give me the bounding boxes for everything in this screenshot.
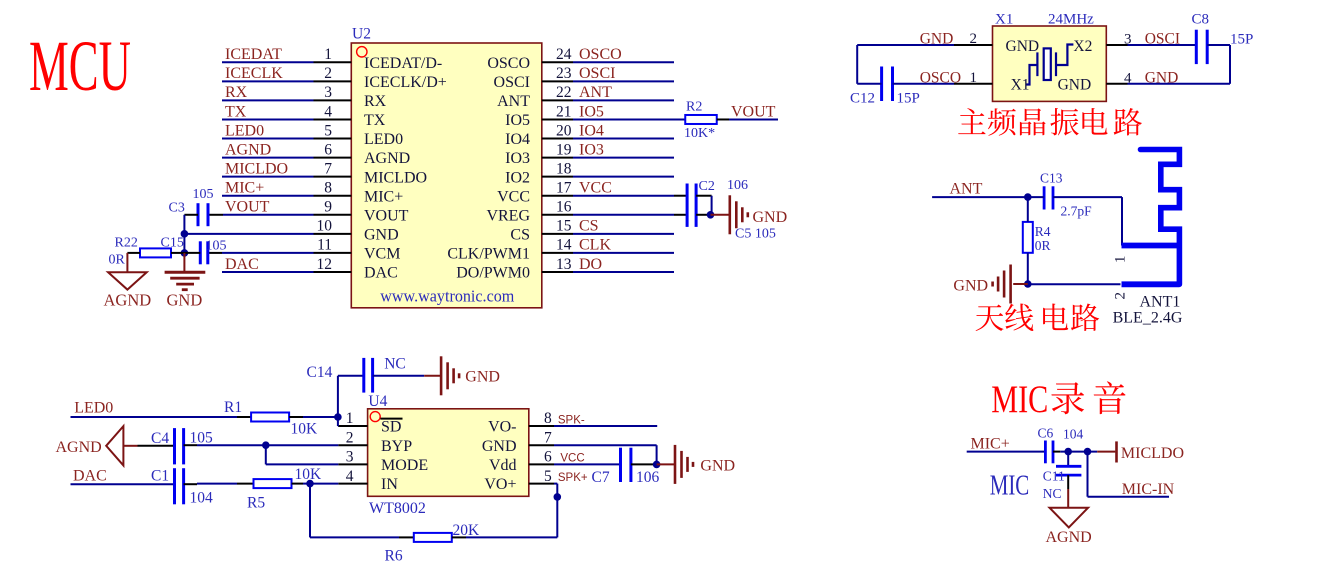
wire net CLK <box>573 252 674 254</box>
junction <box>707 211 715 219</box>
svg-text:VCC: VCC <box>560 453 584 465</box>
svg-text:R1: R1 <box>224 399 242 416</box>
svg-text:24MHz: 24MHz <box>1048 12 1094 28</box>
wire U4 pin6 VCC to C7 <box>554 463 621 465</box>
power symbol GND <box>728 195 731 234</box>
svg-text:R6: R6 <box>385 548 403 565</box>
U4 pin 7 stub <box>529 444 554 446</box>
wire junction to GND symbol <box>657 463 675 465</box>
svg-text:18: 18 <box>556 160 572 177</box>
U2 pin 10 stub <box>314 233 352 235</box>
svg-text:CLK: CLK <box>579 237 611 254</box>
U2 pin 4 stub <box>314 118 352 120</box>
svg-text:6: 6 <box>324 141 332 158</box>
svg-text:12: 12 <box>317 256 333 273</box>
svg-text:NC: NC <box>1043 486 1062 501</box>
wire net LED0 <box>222 138 314 140</box>
svg-text:AGND: AGND <box>104 291 152 310</box>
wire net DO <box>573 271 674 273</box>
IC U2 pin-1 indicator circle <box>357 47 367 57</box>
wire net 18 <box>573 176 674 178</box>
U2 pin 21 stub <box>542 118 573 120</box>
capacitor C14 <box>362 358 365 393</box>
MICLDO pin tick <box>1115 441 1118 462</box>
wire to MICLDO pin <box>1097 451 1115 453</box>
resistor R5 <box>254 479 292 488</box>
svg-text:AGND: AGND <box>1046 529 1092 546</box>
X1 pin 1 stub <box>954 83 993 85</box>
wire C2 down to junction <box>696 195 712 197</box>
svg-text:LED0: LED0 <box>225 122 264 139</box>
U2 pin 13 stub <box>542 271 573 273</box>
svg-text:C5 105: C5 105 <box>735 227 776 242</box>
svg-text:ANT1: ANT1 <box>1140 294 1181 311</box>
U2 pin 6 stub <box>314 157 352 159</box>
svg-text:DAC: DAC <box>73 468 107 485</box>
svg-text:U2: U2 <box>352 26 371 43</box>
svg-text:20: 20 <box>556 122 572 139</box>
U4 pin 2 stub <box>338 444 367 446</box>
svg-text:NC: NC <box>384 356 406 373</box>
svg-text:106: 106 <box>636 469 660 486</box>
svg-text:GND: GND <box>953 278 988 295</box>
junction MIC-IN node <box>1084 448 1092 456</box>
svg-text:C11: C11 <box>1043 469 1065 484</box>
wire net IO3 <box>573 157 674 159</box>
wire R22 to junction <box>171 252 184 254</box>
junction GND node <box>1024 280 1032 288</box>
power symbol GND near C14 <box>440 356 443 395</box>
svg-text:MIC: MIC <box>991 378 1048 421</box>
antenna pin 2 bar <box>1122 281 1180 287</box>
resistor R1 <box>251 413 289 422</box>
U2 pin 3 stub <box>314 99 352 101</box>
svg-text:GND: GND <box>364 226 399 243</box>
svg-text:2: 2 <box>1112 292 1128 300</box>
svg-text:19: 19 <box>556 141 572 158</box>
capacitor C2 <box>686 184 689 227</box>
svg-text:CS: CS <box>579 218 599 235</box>
svg-text:6: 6 <box>544 449 552 466</box>
U2 pin 12 stub <box>314 271 352 273</box>
capacitor C6 <box>1044 441 1047 464</box>
resistor R2 <box>685 115 717 124</box>
svg-text:C3: C3 <box>169 201 185 216</box>
svg-text:TX: TX <box>225 103 247 120</box>
earth ground symbol GND <box>183 253 185 272</box>
wire IN node down to R6 <box>309 484 311 538</box>
U4 pin-1 indicator circle <box>370 412 380 422</box>
wire pin16 to decoupling caps <box>573 214 674 216</box>
svg-text:8: 8 <box>324 180 332 197</box>
wire net OSCI <box>573 80 674 82</box>
ground symbol AGND mic <box>1050 508 1089 528</box>
junction pin1 node <box>334 413 342 421</box>
svg-text:DAC: DAC <box>225 256 259 273</box>
U2 pin 22 stub <box>542 99 573 101</box>
wire net ICECLK <box>222 80 314 82</box>
IC U2 body <box>351 43 542 308</box>
wire C3 left to vertical bus <box>184 214 198 216</box>
U2 pin 17 stub <box>542 195 573 197</box>
svg-text:104: 104 <box>190 490 214 507</box>
SD overline <box>380 418 402 420</box>
svg-text:VOUT: VOUT <box>731 103 776 120</box>
wire net CS <box>573 233 674 235</box>
wire down to C11 <box>1067 452 1069 467</box>
capacitor C1 <box>173 468 176 504</box>
power symbol GND antenna <box>1013 283 1028 285</box>
svg-text:R5: R5 <box>247 495 265 512</box>
U2 pin 19 stub <box>542 157 573 159</box>
wire net ICEDAT <box>222 61 314 63</box>
svg-text:X1: X1 <box>995 12 1013 28</box>
wire GND loop left <box>857 44 954 46</box>
svg-text:106: 106 <box>727 178 748 193</box>
U2 pin 2 stub <box>314 80 352 82</box>
svg-text:OSCI: OSCI <box>494 74 530 91</box>
svg-text:105: 105 <box>206 239 227 254</box>
wire MIC-IN <box>1087 452 1089 497</box>
svg-text:0R: 0R <box>109 253 126 268</box>
U4 pin 1 stub <box>338 425 367 427</box>
wire C7 to GND junction <box>631 463 657 465</box>
wire C13 to antenna pin1 <box>1053 196 1122 198</box>
wire BYP node down to pin3 <box>265 445 267 464</box>
U2 pin 7 stub <box>314 176 352 178</box>
U2 pin 23 stub <box>542 80 573 82</box>
crystal symbol inside X1 <box>1027 45 1074 85</box>
svg-text:3: 3 <box>324 84 332 101</box>
svg-text:DAC: DAC <box>364 265 398 282</box>
svg-text:BYP: BYP <box>381 438 412 455</box>
svg-text:GND: GND <box>1058 76 1092 93</box>
svg-text:C6: C6 <box>1038 426 1054 441</box>
capacitor C15 <box>199 241 202 264</box>
svg-text:MIC: MIC <box>990 471 1030 502</box>
wire net MICLDO <box>222 176 314 178</box>
svg-text:ICEDAT: ICEDAT <box>225 46 282 63</box>
junction BYP node <box>262 441 270 449</box>
wire ANT node to C13 <box>1028 196 1044 198</box>
svg-text:C13: C13 <box>1040 171 1063 186</box>
svg-text:GND: GND <box>482 438 517 455</box>
svg-text:GND: GND <box>1006 38 1040 55</box>
wire R6 to VO+ node <box>452 536 466 538</box>
wire C6 to MICLDO <box>1053 451 1060 453</box>
svg-text:2.7pF: 2.7pF <box>1061 204 1093 219</box>
wire ANT <box>932 196 1028 198</box>
svg-text:7: 7 <box>544 429 552 446</box>
wire C8 right loop <box>1207 44 1230 46</box>
wire C5 to junction <box>696 214 710 216</box>
svg-text:2: 2 <box>324 65 332 82</box>
svg-text:VOUT: VOUT <box>364 207 409 224</box>
svg-text:IO3: IO3 <box>579 141 604 158</box>
svg-text:IO3: IO3 <box>505 150 530 167</box>
svg-text:1: 1 <box>324 46 332 63</box>
X1 pin 3 stub <box>1106 44 1127 46</box>
svg-text:10K: 10K <box>291 421 319 438</box>
wire DAC to C1 <box>71 483 175 485</box>
ground symbol AGND <box>108 272 147 289</box>
svg-text:Vdd: Vdd <box>489 457 517 474</box>
capacitor C11 horizontal plates <box>1056 465 1081 468</box>
resistor R6 <box>414 533 452 542</box>
wire net IO4 <box>573 138 674 140</box>
U2 pin 14 stub <box>542 252 573 254</box>
U4 pin 3 stub <box>338 463 367 465</box>
wire AGND to C4 <box>123 445 137 447</box>
wire MIC+ to C6 <box>967 451 1046 453</box>
svg-text:15P: 15P <box>1230 32 1253 48</box>
svg-text:IO5: IO5 <box>579 103 604 120</box>
resistor R4 vertical <box>1023 222 1033 253</box>
svg-text:MICLDO: MICLDO <box>364 169 427 186</box>
U2 pin 1 stub <box>314 61 352 63</box>
svg-text:IO4: IO4 <box>505 131 530 148</box>
svg-text:1: 1 <box>1112 256 1128 264</box>
junction pin11 GND node <box>181 249 189 257</box>
wire R4 to GND node <box>1027 253 1029 284</box>
svg-text:7: 7 <box>324 160 332 177</box>
U2 pin 9 stub <box>314 214 352 216</box>
svg-text:IO2: IO2 <box>505 169 530 186</box>
wire node to U4 pin1 <box>337 417 339 426</box>
svg-text:105: 105 <box>190 430 214 447</box>
svg-text:U4: U4 <box>368 393 387 410</box>
svg-text:8: 8 <box>544 410 552 427</box>
svg-text:VCC: VCC <box>579 180 612 197</box>
svg-text:OSCO: OSCO <box>579 46 622 63</box>
svg-text:LED0: LED0 <box>74 400 113 417</box>
svg-text:BLE_2.4G: BLE_2.4G <box>1113 310 1183 327</box>
U4 pin 4 stub <box>338 483 367 485</box>
junction C7 GND node <box>653 461 661 469</box>
wire U4 pin7 to junction <box>554 444 657 446</box>
svg-text:MIC+: MIC+ <box>364 188 403 205</box>
U4 pin 8 stub <box>529 425 554 427</box>
svg-text:RX: RX <box>225 84 248 101</box>
svg-text:DO: DO <box>579 256 602 273</box>
svg-text:AGND: AGND <box>364 150 410 167</box>
wire net RX <box>222 99 314 101</box>
X1 pin 2 stub <box>954 44 993 46</box>
crystal box X1 <box>993 26 1107 101</box>
power symbol GND near C7 <box>674 445 677 484</box>
svg-text:IO4: IO4 <box>579 122 604 139</box>
svg-text:MIC-IN: MIC-IN <box>1122 481 1175 498</box>
svg-text:SPK+: SPK+ <box>558 472 588 484</box>
wire GND node to antenna pin2 <box>1028 283 1121 285</box>
wire R2 to VOUT <box>717 118 729 120</box>
svg-text:VCM: VCM <box>364 246 400 263</box>
svg-text:15: 15 <box>556 218 572 235</box>
svg-text:GND: GND <box>700 458 735 475</box>
U2 pin 15 stub <box>542 233 573 235</box>
svg-text:TX: TX <box>364 112 386 129</box>
svg-text:OSCO: OSCO <box>487 55 530 72</box>
svg-text:1: 1 <box>346 410 354 427</box>
wire C14 to GND <box>373 375 425 377</box>
wire net OSCO <box>573 61 674 63</box>
svg-text:C2: C2 <box>699 179 715 194</box>
wire C12 to X1 pin1 <box>893 83 955 85</box>
wire pin3 to C8 <box>1128 44 1197 46</box>
wire C1 to R5 <box>184 483 197 485</box>
junction on VO+ drop <box>554 493 562 501</box>
wire R1 to pin1 node <box>289 416 303 418</box>
capacitor C12 <box>880 67 883 102</box>
svg-text:2: 2 <box>346 429 354 446</box>
svg-text:MICLDO: MICLDO <box>1121 445 1184 462</box>
svg-text:R22: R22 <box>115 236 138 251</box>
U4 pin 5 stub <box>529 483 554 485</box>
svg-text:MIC+: MIC+ <box>225 180 264 197</box>
U2 pin 16 stub <box>542 214 573 216</box>
svg-text:C4: C4 <box>151 430 169 447</box>
svg-text:SPK-: SPK- <box>558 415 585 427</box>
svg-text:17: 17 <box>556 180 572 197</box>
svg-text:VREG: VREG <box>486 207 530 224</box>
svg-text:AGND: AGND <box>56 439 102 456</box>
svg-text:MCU: MCU <box>29 26 131 106</box>
svg-text:9: 9 <box>324 199 332 216</box>
svg-text:CS: CS <box>510 226 530 243</box>
svg-text:SD: SD <box>381 419 401 436</box>
svg-text:16: 16 <box>556 199 572 216</box>
junction IN node <box>306 480 314 488</box>
svg-text:4: 4 <box>324 103 332 120</box>
svg-text:RX: RX <box>364 93 387 110</box>
wire net VOUT pin9 <box>208 214 223 216</box>
wire U4 pin8 SPK- <box>554 425 657 427</box>
wire IN node to U4 pin4 <box>310 483 338 485</box>
U2 pin 5 stub <box>314 138 352 140</box>
svg-text:5: 5 <box>324 122 332 139</box>
wire pin10 to GND node <box>184 233 313 235</box>
svg-text:21: 21 <box>556 103 572 120</box>
svg-text:24: 24 <box>556 46 572 63</box>
svg-text:DO/PWM0: DO/PWM0 <box>456 265 530 282</box>
svg-text:23: 23 <box>556 65 572 82</box>
svg-text:11: 11 <box>317 237 332 254</box>
svg-text:5: 5 <box>544 468 552 485</box>
svg-text:ANT: ANT <box>950 181 983 198</box>
svg-text:IO5: IO5 <box>505 112 530 129</box>
wire BYP node to U4 pin2 <box>266 444 339 446</box>
svg-text:13: 13 <box>556 256 572 273</box>
svg-text:ICECLK: ICECLK <box>225 65 283 82</box>
svg-text:10: 10 <box>317 218 333 235</box>
U2 pin 20 stub <box>542 138 573 140</box>
svg-text:20K: 20K <box>453 522 481 539</box>
svg-text:GND: GND <box>465 369 500 386</box>
capacitor C4 <box>173 428 176 464</box>
U2 pin 24 stub <box>542 61 573 63</box>
svg-text:VO+: VO+ <box>484 476 516 493</box>
U4 pin 6 stub <box>529 463 554 465</box>
svg-text:GND: GND <box>167 291 203 310</box>
svg-text:ANT: ANT <box>579 84 612 101</box>
svg-text:ICECLK/D+: ICECLK/D+ <box>364 74 447 91</box>
capacitor C7 <box>619 448 622 482</box>
vertical wire C3 to GND node <box>183 215 185 253</box>
svg-text:CLK/PWM1: CLK/PWM1 <box>447 246 530 263</box>
svg-text:ICEDAT/D-: ICEDAT/D- <box>364 55 442 72</box>
svg-text:C12: C12 <box>850 91 875 107</box>
svg-text:C1: C1 <box>151 468 169 485</box>
U2 pin 18 stub <box>542 176 573 178</box>
svg-text:0R: 0R <box>1035 238 1051 253</box>
wire net ANT <box>573 99 674 101</box>
svg-text:10K*: 10K* <box>684 126 715 141</box>
svg-text:VCC: VCC <box>497 188 530 205</box>
svg-text:105: 105 <box>193 187 214 202</box>
ground symbol AGND arrow <box>106 426 123 465</box>
wire junction to C15 <box>184 252 200 254</box>
X1 pin 4 stub <box>1106 83 1127 85</box>
junction C11 node <box>1064 448 1072 456</box>
svg-text:WT8002: WT8002 <box>369 500 426 517</box>
wire up to U4 pin5 <box>556 484 558 538</box>
antenna pin 1 bar <box>1122 243 1180 249</box>
svg-text:GND: GND <box>753 209 788 226</box>
wire net TX <box>222 118 314 120</box>
wire net AGND <box>222 157 314 159</box>
U2 pin 8 stub <box>314 195 352 197</box>
wire net MIC+ <box>222 195 314 197</box>
wire pin4 to C8 loop <box>1128 83 1231 85</box>
resistor R22 <box>140 248 171 257</box>
title tian-xian-dian-lu <box>976 305 1004 332</box>
wire R22 to AGND <box>127 252 140 254</box>
svg-text:15P: 15P <box>897 91 920 107</box>
svg-text:IN: IN <box>381 476 398 493</box>
svg-text:R2: R2 <box>686 100 702 115</box>
wire node up to C14 <box>337 376 339 417</box>
svg-text:C14: C14 <box>307 364 333 381</box>
svg-text:3: 3 <box>346 449 354 466</box>
svg-text:X2: X2 <box>1073 38 1092 55</box>
wire C4 to BYP node <box>184 444 197 446</box>
antenna ANT1 meander <box>1141 150 1180 285</box>
title zhu-pin-jing-zhen-dian-lu <box>958 108 985 134</box>
svg-text:R4: R4 <box>1035 224 1051 239</box>
svg-text:ANT: ANT <box>497 93 530 110</box>
wire net DAC <box>222 271 314 273</box>
wire pin17 to decoupling caps <box>573 195 674 197</box>
svg-text:22: 22 <box>556 84 572 101</box>
svg-text:2: 2 <box>970 31 978 47</box>
wire junction to GND symbol <box>711 214 730 216</box>
wire pin21 to R2 <box>573 118 685 120</box>
svg-text:X1: X1 <box>1011 76 1030 93</box>
svg-text:MIC+: MIC+ <box>971 436 1010 453</box>
capacitor C3 <box>197 203 200 226</box>
junction ANT node <box>1024 193 1032 201</box>
svg-text:OSCI: OSCI <box>579 65 615 82</box>
svg-text:VO-: VO- <box>488 419 516 436</box>
wire R5 to IN node <box>292 483 303 485</box>
svg-text:MODE: MODE <box>381 457 428 474</box>
svg-text:1: 1 <box>970 70 978 86</box>
svg-text:VOUT: VOUT <box>225 199 270 216</box>
svg-text:C8: C8 <box>1192 12 1210 28</box>
wire LED0 to R1 <box>71 416 238 418</box>
svg-text:4: 4 <box>346 468 354 485</box>
IC U4 body <box>368 409 529 497</box>
